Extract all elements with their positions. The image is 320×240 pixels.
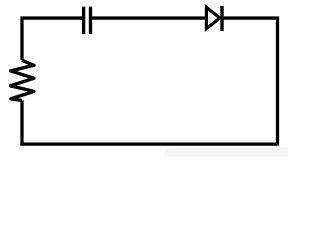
diode D1 triangle (anode) <box>206 7 219 28</box>
wire: between capacitor and diode <box>91 16 207 19</box>
capacitor C1 right plate <box>89 7 92 34</box>
watermark badge (faint, bottom right) <box>163 148 293 164</box>
capacitor C1 left plate <box>82 7 85 34</box>
wire: top-left segment and upper left side <box>22 18 84 60</box>
resistor R1 (zigzag, left side) <box>11 60 34 100</box>
diode D1 cathode bar <box>220 6 223 31</box>
wire: lower left side, bottom, right side, top-right segment <box>22 18 278 144</box>
